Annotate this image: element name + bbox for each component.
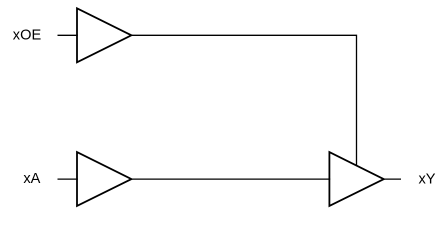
- wire xOE input: [58, 34, 78, 36]
- svg-text:xY: xY: [419, 171, 436, 187]
- buffer U1 (xOE): [77, 8, 131, 62]
- svg-text:xOE: xOE: [13, 28, 42, 44]
- wire U2 output to U3 input: [131, 178, 330, 180]
- tri-state buffer U3: [329, 152, 383, 206]
- svg-text:xA: xA: [23, 171, 40, 187]
- buffer U2 (xA): [77, 152, 131, 206]
- wire U3 output: [384, 178, 401, 180]
- wire xA input: [58, 178, 78, 180]
- wire from U1 output to enable of U3: [131, 35, 356, 165]
